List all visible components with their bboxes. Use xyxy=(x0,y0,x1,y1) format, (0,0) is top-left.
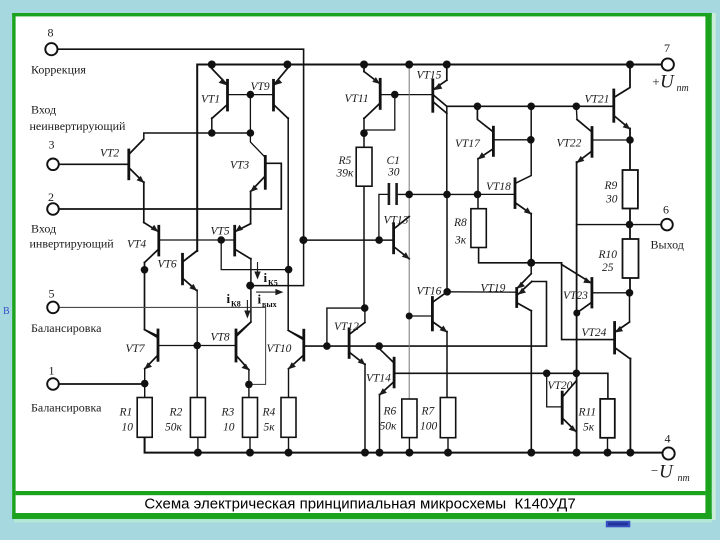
wire: VT17 base rail xyxy=(493,139,530,141)
wire: R1 bottom stub xyxy=(144,437,146,452)
wire: R4 bottom stub xyxy=(288,437,290,452)
node on +U bus at VT21 collector xyxy=(626,61,634,69)
wire: VT18 base rail xyxy=(478,193,516,195)
svg-text:VT17: VT17 xyxy=(455,138,481,150)
wire: VT19 second emitter loop xyxy=(532,282,547,347)
transistor VT5 xyxy=(235,224,251,259)
svg-text:50к: 50к xyxy=(380,421,398,433)
svg-text:U: U xyxy=(660,72,675,93)
node R10 bottom xyxy=(626,289,634,297)
node VT6 base tap xyxy=(141,266,149,274)
svg-text:R6: R6 xyxy=(383,406,397,418)
wire: negative supply bottom bus xyxy=(145,437,663,452)
node base rail VT4/VT5 tap xyxy=(217,236,225,244)
node bus R2 xyxy=(194,449,202,457)
svg-text:7: 7 xyxy=(664,41,670,55)
svg-text:Выход: Выход xyxy=(651,238,684,252)
svg-text:VT2: VT2 xyxy=(100,148,119,160)
node bus R7 xyxy=(444,449,452,457)
svg-text:10: 10 xyxy=(223,422,235,434)
svg-text:R11: R11 xyxy=(578,407,597,419)
wire: R2 bottom stub xyxy=(197,437,199,452)
node bus VT14 emitter xyxy=(376,449,384,457)
svg-text:К5: К5 xyxy=(268,279,278,288)
wire: balance pin 5 wire to R3 node xyxy=(59,307,266,384)
wire: VT19 base rail xyxy=(447,291,517,293)
svg-text:VT7: VT7 xyxy=(126,343,146,355)
svg-text:U: U xyxy=(659,462,674,483)
svg-text:R3: R3 xyxy=(221,407,235,419)
svg-text:VT3: VT3 xyxy=(230,160,249,172)
terminal pin 7 xyxy=(662,58,674,70)
wire: VT14 emitter to bus xyxy=(379,395,381,453)
svg-text:10: 10 xyxy=(122,422,134,434)
svg-text:VT18: VT18 xyxy=(486,181,511,193)
svg-text:пт: пт xyxy=(678,473,690,484)
node bus R11 xyxy=(604,449,612,457)
node bus R6 xyxy=(405,449,413,457)
svg-text:R8: R8 xyxy=(453,217,467,229)
svg-text:VT6: VT6 xyxy=(158,259,177,271)
wire: R11 bottom stub xyxy=(607,438,609,453)
wire: VT6 emitter down to VT7/VT8 base rail xyxy=(195,290,198,346)
node C1 left lead xyxy=(375,236,383,244)
transistor VT4 xyxy=(144,223,159,263)
green frame: left xyxy=(12,13,15,519)
terminal pin 1 xyxy=(47,378,59,390)
node VT12 base line left xyxy=(323,342,331,350)
transistor VT10 xyxy=(288,330,304,369)
svg-text:30: 30 xyxy=(605,194,618,206)
wire: VT3 emitter to VT5 emitter xyxy=(250,192,252,224)
svg-text:VT8: VT8 xyxy=(211,332,230,344)
svg-text:i: i xyxy=(264,270,268,285)
wire: input pin 3 to VT2 base xyxy=(59,163,129,165)
wire: VT14 base rail to R11 xyxy=(394,373,608,399)
svg-text:VT13: VT13 xyxy=(384,215,409,227)
node VT14 collector xyxy=(375,342,383,350)
node VT18 emitter / R8 xyxy=(527,259,535,267)
svg-text:инвертирующий: инвертирующий xyxy=(30,237,115,251)
node VT20 base xyxy=(543,370,551,378)
current arrow i_out xyxy=(256,291,277,293)
node VT20 collector line xyxy=(573,370,581,378)
wire: VT10-VT12 base line extending to VT19 loop xyxy=(304,345,547,347)
wire: R7 bottom stub xyxy=(447,438,449,453)
pale highlight right of frame xyxy=(712,13,716,520)
wire: VT17 collector from rail xyxy=(477,106,493,132)
wire: VT21 collector from bus xyxy=(614,65,630,98)
node mirror line at VT9-VT10 xyxy=(285,266,293,274)
svg-text:VT12: VT12 xyxy=(334,321,359,333)
transistor VT20 xyxy=(562,381,576,433)
resistor R10 xyxy=(623,239,639,278)
node C1 line at VT16 branch xyxy=(443,191,451,199)
wire: balance pin 1 wire xyxy=(59,383,145,385)
transistor VT19 (double emitter) xyxy=(517,274,532,311)
terminal pin 8 xyxy=(45,43,57,55)
svg-text:VT5: VT5 xyxy=(211,226,230,238)
node VT11 base tie xyxy=(391,91,399,99)
svg-text:VT15: VT15 xyxy=(417,70,442,82)
resistor R3 xyxy=(243,398,258,438)
svg-text:В: В xyxy=(3,306,10,317)
svg-text:R9: R9 xyxy=(604,180,618,192)
node VT21 emitter / VT22 base xyxy=(626,136,634,144)
svg-text:−: − xyxy=(650,463,659,478)
transistor VT14 xyxy=(379,349,394,396)
capacitor C1 xyxy=(389,183,397,205)
svg-text:8: 8 xyxy=(48,26,54,40)
node C1 line at thin vertical xyxy=(405,191,413,199)
wire: correction pin 8 top wire and vertical drop xyxy=(58,49,304,240)
wire: R3 bottom stub xyxy=(249,437,251,452)
resistor R1 xyxy=(137,398,152,438)
wire: first stage collector line y=133 xyxy=(144,133,251,138)
wire: VT8 collector up to node xyxy=(236,286,251,335)
node bus VT19 collector xyxy=(527,449,535,457)
svg-text:3: 3 xyxy=(49,138,55,152)
svg-text:R4: R4 xyxy=(262,407,276,419)
svg-text:5к: 5к xyxy=(583,422,595,434)
resistor R4 xyxy=(281,398,296,438)
node balance 5 / R3 top xyxy=(245,381,253,389)
terminal pin 4 xyxy=(663,447,675,459)
wire: VT7/VT8 base rail xyxy=(158,345,236,347)
wire: node vertical C1 to VT16 collector xyxy=(446,195,448,292)
wire: R5 bottom long drop xyxy=(363,186,365,308)
terminal pin 2 xyxy=(47,203,59,215)
svg-text:пт: пт xyxy=(677,83,689,94)
green frame: top xyxy=(12,13,712,16)
svg-text:VT16: VT16 xyxy=(417,286,442,298)
svg-text:5к: 5к xyxy=(264,422,276,434)
svg-text:25: 25 xyxy=(602,262,614,274)
wire: VT1/VT9 base rail with center tap xyxy=(228,94,274,96)
node correction line xyxy=(299,236,307,244)
svg-text:Схема электрическая принципиал: Схема электрическая принципиальная микро… xyxy=(144,496,575,513)
node collector line at VT3 xyxy=(247,129,255,137)
wire: VT16 base tap xyxy=(409,315,432,317)
wire: output wire to pin 6 xyxy=(577,224,662,226)
node C1 line at R8 top xyxy=(474,191,482,199)
wire: R9 bottom to node xyxy=(629,209,631,240)
node VT23 collector xyxy=(573,310,580,317)
svg-text:неинвертирующий: неинвертирующий xyxy=(30,119,126,133)
wire: VT11 collector to R5 xyxy=(363,118,365,147)
node balance 1 / R1 top xyxy=(141,380,149,388)
blue link marker xyxy=(606,521,631,528)
transistor VT6 xyxy=(183,251,198,292)
transistor VT1 xyxy=(212,69,228,119)
wire: VT18 collector vertical xyxy=(515,106,531,183)
transistor VT12 xyxy=(349,323,365,366)
svg-text:VT19: VT19 xyxy=(481,283,506,295)
transistor VT8 xyxy=(236,322,251,370)
wire: VT14 collector tap xyxy=(378,346,380,348)
wire: VT19 collector down to bus xyxy=(530,311,532,453)
wire: node link to VT10/VT12 base line xyxy=(327,308,365,346)
transistor VT18 xyxy=(515,179,532,215)
node VT11 collector / R5 top xyxy=(360,129,368,137)
wire: C1 left lead down to VT13 base line xyxy=(379,194,389,240)
wire: VT16 emitter to R7 xyxy=(446,332,448,398)
node bus R4 xyxy=(285,449,293,457)
svg-text:i: i xyxy=(227,291,231,306)
node on +U bus at VT9 emitter xyxy=(283,61,291,69)
wire: base rail tap down and right to mirror line xyxy=(221,240,288,270)
wire: VT9 collector long drop to VT10 xyxy=(288,118,304,338)
wire: VT21 emitter to R9 xyxy=(629,129,631,171)
svg-text:R5: R5 xyxy=(338,155,352,167)
wire: VT24 emitter feed xyxy=(616,293,630,332)
current arrow i_k8 xyxy=(246,300,248,313)
svg-text:Балансировка: Балансировка xyxy=(31,401,102,415)
svg-text:VT24: VT24 xyxy=(582,327,607,339)
wire: thin vertical from bus through C1 node to R6 xyxy=(408,65,410,400)
wire: VT24 collector to bus xyxy=(629,359,631,453)
wire: R8 bottom wire to VT23 corner xyxy=(479,248,562,263)
node collector line at VT1 xyxy=(208,129,216,137)
node bus VT20/VT22 xyxy=(573,449,581,457)
wire: VT11/VT15 base rail xyxy=(380,94,433,96)
svg-text:Коррекция: Коррекция xyxy=(31,63,86,77)
node VT17 base / VT18 collector xyxy=(527,136,535,144)
wire: R10 bottom to VT23 base rail xyxy=(629,278,631,293)
wire: rail to R2 top xyxy=(196,346,198,398)
transistor VT3 xyxy=(250,156,265,192)
resistor R2 xyxy=(190,398,205,438)
terminal pin 5 xyxy=(47,302,59,314)
transistor VT21 xyxy=(614,90,631,130)
wire: VT12 collector up to node xyxy=(364,308,366,322)
transistor VT22 xyxy=(576,120,592,164)
wire: tap from base rail down to collector line xyxy=(250,95,265,158)
svg-text:VT4: VT4 xyxy=(127,239,146,251)
svg-text:4: 4 xyxy=(665,432,671,446)
node VT16 base tap xyxy=(406,313,413,320)
node output junction xyxy=(626,221,634,229)
svg-text:R7: R7 xyxy=(421,406,436,418)
node bus VT12 emitter xyxy=(361,449,369,457)
svg-text:39к: 39к xyxy=(336,168,355,180)
node first stage output xyxy=(246,282,254,290)
node on +U bus at VT11 emitter xyxy=(360,61,368,69)
wire: VT10 emitter to R4 xyxy=(288,369,290,398)
wire: VT22 emitter long vertical to bus xyxy=(576,162,578,453)
transistor VT2 xyxy=(129,139,145,183)
svg-text:VT21: VT21 xyxy=(585,94,610,106)
node on +U bus at VT15 emitter xyxy=(443,61,451,69)
wire: VT23 base rail xyxy=(592,292,630,294)
wire: VT15 emitter from bus xyxy=(446,65,448,81)
node rail y106 at VT18 xyxy=(527,103,535,111)
svg-text:VT20: VT20 xyxy=(548,380,573,392)
node bus R3 xyxy=(246,449,254,457)
wire: VT7 emitter to R1 xyxy=(144,369,146,398)
node R5 bottom xyxy=(361,304,369,312)
wire: VT1 collector drop xyxy=(211,118,213,133)
svg-text:5: 5 xyxy=(49,287,55,301)
resistor R6 xyxy=(402,399,417,438)
svg-text:50к: 50к xyxy=(165,422,183,434)
svg-text:R1: R1 xyxy=(119,407,133,419)
wire: VT18 emitter down to node xyxy=(530,214,532,263)
svg-text:+: + xyxy=(652,74,661,89)
svg-text:VT10: VT10 xyxy=(267,343,292,355)
wire: VT11 emitter from bus xyxy=(363,65,365,72)
wire: correction node line to VT13 base xyxy=(303,239,393,241)
current arrow i_k5 xyxy=(257,262,259,274)
wire: VT6 collector join to supply drop xyxy=(183,251,198,262)
svg-text:Вход: Вход xyxy=(31,103,56,117)
svg-text:30: 30 xyxy=(387,167,400,179)
green frame: right xyxy=(705,13,711,519)
node rail y106 at VT22 xyxy=(573,103,581,111)
transistor VT16 xyxy=(432,292,447,333)
transistor VT15 xyxy=(433,80,447,113)
svg-text:VT11: VT11 xyxy=(345,93,369,105)
node VT1/VT9 base rail tap xyxy=(247,91,255,99)
node VT7/VT8 base rail xyxy=(193,342,201,350)
wire: VT22 base rail xyxy=(592,139,630,141)
svg-text:VT9: VT9 xyxy=(251,81,270,93)
svg-text:Балансировка: Балансировка xyxy=(31,321,102,335)
node bus VT24 collector xyxy=(626,449,634,457)
terminal pin 3 xyxy=(47,159,59,171)
transistor VT17 xyxy=(478,127,494,159)
wire: corner down to VT24 base xyxy=(562,263,615,340)
wire: VT17 emitter to R8 xyxy=(477,159,479,209)
resistor R11 xyxy=(600,399,615,438)
transistor VT23 xyxy=(562,265,592,314)
svg-text:Вход: Вход xyxy=(31,222,56,236)
svg-text:100: 100 xyxy=(420,421,438,433)
svg-text:R2: R2 xyxy=(169,407,183,419)
wire: +U supply bus xyxy=(197,65,662,252)
transistor VT13 xyxy=(394,217,410,260)
resistor R5 xyxy=(356,147,372,186)
svg-text:К8: К8 xyxy=(231,300,241,309)
caption divider green line xyxy=(16,491,706,495)
svg-text:2: 2 xyxy=(48,190,54,204)
wire: VT4/VT5 base rail xyxy=(159,239,235,241)
wire: output stage base rail y=106 xyxy=(447,105,614,107)
svg-text:6: 6 xyxy=(663,203,669,217)
wire: VT4 collector drop to VT7 xyxy=(145,263,159,337)
node rail y106 at VT17 xyxy=(474,103,482,111)
wire: VT8 emitter to R3 xyxy=(248,370,250,398)
transistor VT24 xyxy=(615,322,631,359)
wire: R6 bottom stub xyxy=(408,438,410,453)
wire: VT5 collector down to node xyxy=(250,259,252,286)
green frame: bottom xyxy=(12,513,712,519)
svg-text:R10: R10 xyxy=(598,249,618,261)
wire: C1 node line y=194.5 xyxy=(397,193,478,195)
wire: VT20 base link xyxy=(547,373,563,407)
wire: node to correction vertical xyxy=(250,240,303,286)
svg-text:1: 1 xyxy=(49,364,55,378)
svg-text:VT14: VT14 xyxy=(366,373,391,385)
node VT16 collector / VT19 base xyxy=(443,288,451,296)
node on +U bus at VT1 emitter xyxy=(208,61,216,69)
node on +U bus at thin vertical xyxy=(405,61,413,69)
wire: VT11 diode tie xyxy=(364,95,395,130)
wire: input pin 2 to VT3 base xyxy=(59,163,281,209)
terminal pin 6 xyxy=(661,219,673,231)
transistor VT9 xyxy=(274,69,289,119)
transistor VT7 xyxy=(144,330,158,370)
wire: VT19 emitter feed xyxy=(530,263,532,274)
resistor R7 xyxy=(440,398,455,438)
resistor R9 xyxy=(623,170,638,209)
wire: VT15 collector vertical down xyxy=(446,106,448,194)
transistor VT11 xyxy=(364,72,380,119)
wire: VT22 collector up to rail xyxy=(575,106,578,119)
svg-text:вых: вых xyxy=(262,300,277,309)
svg-text:3к: 3к xyxy=(454,235,467,247)
svg-text:VT23: VT23 xyxy=(563,290,588,302)
svg-text:VT22: VT22 xyxy=(557,138,582,150)
svg-text:C1: C1 xyxy=(387,155,400,167)
wire: VT2 emitter to VT4 emitter xyxy=(143,182,145,223)
resistor R8 xyxy=(471,209,486,248)
wire: VT12 emitter to bus xyxy=(364,364,366,453)
svg-text:i: i xyxy=(258,292,262,307)
svg-text:VT1: VT1 xyxy=(201,94,220,106)
